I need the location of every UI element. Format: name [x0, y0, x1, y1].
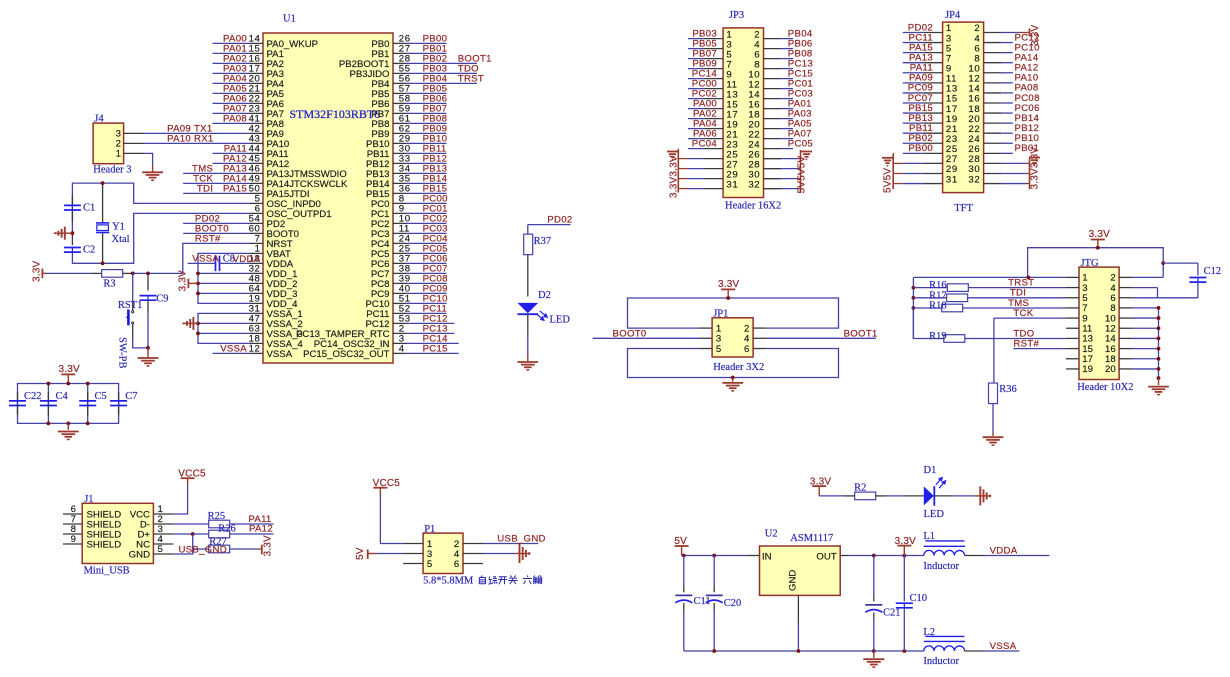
- svg-text:1: 1: [116, 149, 121, 160]
- svg-text:9: 9: [71, 534, 77, 545]
- U1 left pin 16 PA2: [249, 54, 284, 70]
- U1 right pin 3 PC14_OSC32_IN: [314, 334, 406, 350]
- wire: [688, 128, 704, 130]
- wire R26 to PA12: [230, 533, 274, 535]
- wire: [406, 92, 447, 94]
- crystal Y1: [96, 183, 130, 263]
- node PA00: [223, 34, 247, 45]
- wire: [406, 62, 477, 64]
- node PD02: [195, 214, 220, 225]
- wire: [913, 307, 941, 309]
- svg-text:Xtal: Xtal: [112, 234, 130, 245]
- connector J4 Header 3: [93, 114, 143, 176]
- resistor R18: [929, 301, 963, 312]
- power 5V U2: [674, 536, 688, 556]
- wire: [903, 72, 924, 74]
- U1 right pin 36 PB15: [366, 184, 411, 200]
- wire: [406, 252, 447, 254]
- wire: [406, 122, 447, 124]
- svg-text:5V5V5V: 5V5V5V: [797, 155, 808, 193]
- U1 right pin 33 PB12: [366, 154, 411, 170]
- wire D1 to ground: [934, 495, 980, 497]
- node PA05: [223, 84, 247, 95]
- power 3.3V JTAG: [1089, 229, 1111, 248]
- node PB11: [909, 123, 933, 134]
- wire P1 pin2 USB_GND: [483, 543, 538, 545]
- U1 left pin 20 PA4: [249, 74, 285, 90]
- wire: [213, 112, 251, 114]
- node PC09: [908, 83, 933, 94]
- junction: [196, 282, 200, 286]
- node PA08: [1015, 83, 1039, 94]
- svg-text:3.3V3.3V: 3.3V3.3V: [669, 155, 680, 198]
- node PB12: [423, 154, 448, 165]
- wire BOOT0: [593, 337, 699, 339]
- capacitor C4: [40, 391, 69, 415]
- wire: [781, 128, 793, 130]
- svg-text:Header 3X2: Header 3X2: [713, 362, 764, 373]
- switch RST1 SW-PB: [117, 273, 149, 368]
- connector JTG Header 10X2: [1066, 258, 1133, 393]
- svg-text:C22: C22: [24, 391, 42, 402]
- wire: [781, 68, 793, 70]
- op-amp U1 microcontroller STM32F103RBT6 body: [263, 14, 393, 364]
- node PC09: [423, 284, 448, 295]
- capacitor C8 with VDDA wire: [188, 254, 261, 272]
- wire: [1001, 52, 1013, 54]
- svg-text:GND: GND: [788, 570, 799, 591]
- wire: [406, 182, 447, 184]
- node PB02: [908, 133, 933, 144]
- svg-text:PC04: PC04: [692, 138, 718, 149]
- wire: [903, 112, 924, 114]
- power 3.3V VDD rail: [178, 270, 199, 292]
- wire: [781, 108, 793, 110]
- U1 left pin 23 PA7: [249, 104, 284, 120]
- resistor R16: [929, 280, 968, 291]
- U1 right pin 11 PC3: [371, 224, 410, 240]
- node TCK PA14: [193, 174, 247, 185]
- node PB12: [1015, 123, 1040, 134]
- U1 left pin 54 PD2: [249, 214, 286, 230]
- svg-text:OUT: OUT: [816, 552, 836, 563]
- wire: [781, 98, 793, 100]
- node PA12: [249, 524, 273, 535]
- svg-text:TFT: TFT: [954, 203, 973, 214]
- wire: [732, 378, 734, 382]
- label 5.8*5.8MM switch caption: [423, 576, 542, 587]
- svg-text:31: 31: [946, 174, 958, 185]
- U1 left pin 12 VSSA: [249, 344, 293, 360]
- svg-text:C21: C21: [883, 607, 901, 618]
- wire: [781, 118, 793, 120]
- wire: [1158, 378, 1160, 385]
- svg-text:IN: IN: [762, 552, 772, 563]
- svg-text:VDDA: VDDA: [990, 545, 1018, 556]
- svg-text:C1: C1: [83, 203, 95, 214]
- wire: [213, 92, 251, 94]
- wire: [406, 292, 447, 294]
- power 3.3V labels JP3 left: [669, 155, 680, 198]
- wire: [406, 162, 447, 164]
- junction: [902, 649, 906, 653]
- node PA14: [1015, 53, 1039, 64]
- wire: [781, 58, 793, 60]
- node PA07: [223, 104, 247, 115]
- svg-text:Inductor: Inductor: [923, 561, 959, 572]
- U1 left pin 15 PA1: [249, 44, 284, 60]
- wire TCK: [994, 317, 1066, 319]
- junction: [1027, 276, 1031, 280]
- node PB11: [423, 144, 447, 155]
- svg-text:5V5V: 5V5V: [883, 168, 894, 193]
- U1 right pin 24 PC4: [371, 234, 411, 250]
- wire JTAG left rail: [912, 277, 914, 338]
- svg-text:TDI: TDI: [197, 184, 213, 195]
- wire: [688, 88, 704, 90]
- node PA05: [788, 118, 812, 129]
- svg-text:SW-PB: SW-PB: [117, 337, 128, 369]
- junction: [191, 532, 195, 536]
- power VCC5: [178, 469, 206, 485]
- wire crystal top rail: [72, 183, 250, 233]
- U1 left pin 13 VDDA: [249, 254, 294, 270]
- U1 right pin 10 PC2: [371, 214, 411, 230]
- node USB_GND: [179, 544, 227, 555]
- node PA03: [223, 64, 247, 75]
- wire: [913, 287, 947, 289]
- node PA01: [788, 98, 812, 109]
- wire: [903, 142, 924, 144]
- power 5V labels JP3 right: [797, 155, 808, 193]
- connector JP1 Header 3X2: [699, 309, 766, 374]
- svg-text:ASM1117: ASM1117: [790, 533, 833, 544]
- node PA12: [223, 154, 247, 165]
- wire: [688, 118, 704, 120]
- svg-text:USB_GND: USB_GND: [497, 534, 545, 545]
- ground sideways D1: [980, 486, 991, 505]
- junction: [1157, 316, 1161, 320]
- U1 right pin 53 PC12: [366, 314, 411, 330]
- U1 right pin 56 PB4: [371, 74, 410, 90]
- capacitor C22: [9, 391, 42, 415]
- ground R36: [983, 437, 1004, 445]
- wire: [406, 302, 447, 304]
- junction: [1157, 376, 1161, 380]
- wire: [903, 52, 924, 54]
- resistor R36: [989, 383, 1017, 404]
- svg-text:VSSA: VSSA: [990, 641, 1017, 652]
- wire: [406, 242, 447, 244]
- resistor R19: [929, 331, 965, 342]
- wire: [213, 102, 251, 104]
- wire: [688, 58, 704, 60]
- node PA07: [788, 128, 812, 139]
- connector P1 self-lock switch: [403, 524, 483, 574]
- wire JTAG row1 to left rail: [913, 276, 1066, 278]
- U1 left pin 48 VDD_2: [249, 274, 298, 290]
- wire: [688, 148, 704, 150]
- junction: [1161, 261, 1165, 265]
- node BOOT1: [844, 328, 878, 339]
- wire: [213, 152, 251, 154]
- node PC07: [908, 93, 933, 104]
- wire: [903, 82, 924, 84]
- wire: [406, 332, 454, 334]
- power 3.3V JP1: [718, 279, 740, 298]
- junction: [912, 306, 916, 310]
- wire: [406, 312, 447, 314]
- wire J4 pin2 to U1 PA10: [143, 142, 250, 144]
- node TDO: [1013, 328, 1034, 339]
- junction: [872, 554, 876, 558]
- svg-text:3.3V: 3.3V: [263, 535, 274, 557]
- U1 left pin 21 PA5: [249, 84, 284, 100]
- wire: [963, 307, 1066, 309]
- U1 right pin 55 PB3JIDO: [350, 64, 411, 80]
- ground: [142, 172, 163, 180]
- node TRST: [1008, 277, 1034, 288]
- wire: [406, 352, 459, 354]
- wire JP1 bottom loop: [628, 349, 839, 378]
- svg-text:3.3V3.3V: 3.3V3.3V: [1029, 147, 1040, 190]
- wire U2 GND pin: [797, 595, 799, 651]
- U1 right pin 59 PB7: [371, 104, 410, 120]
- junction: [1157, 367, 1161, 371]
- U1 right pin 28 PB2BOOT1: [339, 54, 411, 70]
- resistor R17: [929, 290, 968, 301]
- svg-text:RST#: RST#: [1013, 339, 1039, 350]
- U1 right pin 37 PC6: [371, 254, 411, 270]
- junction: [47, 422, 51, 426]
- wire: [688, 68, 704, 70]
- node PB06: [423, 94, 448, 105]
- wire: [213, 122, 251, 124]
- svg-text:32: 32: [748, 179, 760, 190]
- wire: [406, 202, 447, 204]
- wire: [213, 72, 251, 74]
- wire JTAG top rail: [1028, 248, 1164, 278]
- wire VCC5 to P1 pin1: [380, 495, 403, 544]
- power 3.3V JP4 pin2: [1030, 24, 1041, 46]
- wire pin4 pin6 join: [1132, 288, 1157, 298]
- junction: [66, 422, 70, 426]
- svg-text:5V: 5V: [355, 547, 366, 560]
- svg-text:PB00: PB00: [908, 143, 933, 154]
- wire: [781, 78, 793, 80]
- U1 left pin 22 PA6: [249, 94, 284, 110]
- U1 left pin 49 PA14JTCKSWCLK: [249, 174, 348, 190]
- U1 right pin 2 PC13_TAMPER_RTC: [296, 324, 406, 340]
- U1 right pin 51 PC10: [366, 294, 411, 310]
- wire: [1001, 82, 1013, 84]
- svg-text:RST#: RST#: [195, 234, 221, 245]
- power rail JP3 right: [764, 150, 801, 193]
- wire: [406, 72, 477, 74]
- junction: [1157, 347, 1161, 351]
- svg-text:3.3V: 3.3V: [1089, 229, 1111, 240]
- U1 left pin 50 PA15JTDI: [249, 184, 310, 200]
- svg-text:VSSA: VSSA: [220, 344, 247, 355]
- wire: [903, 42, 924, 44]
- wire OSC_OUT loop: [72, 213, 250, 263]
- junction: [86, 422, 90, 426]
- capacitor C5: [79, 391, 107, 415]
- svg-text:VDDA: VDDA: [233, 254, 261, 265]
- svg-text:D2: D2: [538, 290, 551, 301]
- wire VCC to VCC5: [173, 484, 187, 514]
- U1 right pin 25 PC5: [371, 244, 411, 260]
- U1 right pin 39 PC8: [371, 274, 411, 290]
- svg-text:U1: U1: [283, 14, 296, 25]
- wire: [406, 102, 447, 104]
- capacitor C2: [64, 233, 95, 255]
- wire J4 pin1 to ground: [143, 153, 153, 171]
- node PC00: [692, 78, 717, 89]
- node PB04: [788, 28, 813, 39]
- ground JP3 left pin25: [667, 152, 678, 160]
- ground JP1: [722, 383, 743, 391]
- node PC04: [423, 234, 449, 245]
- ground: [517, 362, 538, 370]
- ground U2: [863, 651, 884, 667]
- node PC12: [1015, 32, 1040, 43]
- node BOOT0: [613, 328, 647, 339]
- wire R19 branch: [913, 308, 943, 339]
- wire: [406, 132, 447, 134]
- LED D2: [518, 290, 571, 326]
- node PC08: [1015, 93, 1040, 104]
- node PA15: [909, 42, 933, 53]
- node BOOT0: [195, 224, 229, 235]
- power 3.3V pullup: [259, 535, 274, 557]
- svg-text:20: 20: [1105, 364, 1116, 375]
- junction: [712, 554, 716, 558]
- wire: [1001, 132, 1013, 134]
- node PC11: [909, 32, 934, 43]
- node PC08: [423, 274, 448, 285]
- U1 left pin 43 PA10: [249, 134, 290, 150]
- node PA12: [1015, 63, 1039, 74]
- junction: [731, 376, 735, 380]
- wire: [406, 342, 459, 344]
- svg-text:SHIELD: SHIELD: [87, 539, 122, 550]
- wire: [903, 122, 924, 124]
- svg-text:C9: C9: [156, 294, 168, 305]
- wire: [213, 52, 251, 54]
- wire cap bank rails: [18, 384, 119, 430]
- regulator U2 ASM1117: [760, 529, 841, 596]
- node PB05: [423, 84, 448, 95]
- wire: [406, 222, 447, 224]
- power 5V at P1: [355, 547, 377, 560]
- U1 right pin 52 PC11: [366, 304, 410, 320]
- svg-text:JP1: JP1: [713, 309, 728, 320]
- node PB04: [423, 74, 484, 85]
- node PB01: [423, 44, 448, 55]
- node PA11: [224, 144, 247, 155]
- wire: [67, 423, 69, 429]
- connector JP4 TFT: [924, 10, 1001, 214]
- wire R36 to ground: [992, 404, 994, 437]
- junction: [47, 382, 51, 386]
- U1 left pin 31 VSSA_1: [249, 304, 303, 320]
- junction: [1157, 337, 1161, 341]
- resistor R37: [524, 225, 551, 297]
- wire: [781, 148, 793, 150]
- node PC01: [423, 204, 448, 215]
- node VSSA: [990, 641, 1017, 652]
- wire bottom rail: [684, 650, 924, 652]
- wire VSSA rail: [198, 313, 250, 343]
- node PB06: [788, 38, 813, 49]
- junction: [101, 261, 105, 265]
- node PC03: [788, 88, 813, 99]
- junction: [131, 272, 135, 276]
- wire: [183, 182, 250, 184]
- U1 left pin 1 VBAT: [250, 244, 291, 260]
- svg-text:C10: C10: [910, 593, 928, 604]
- U1 right pin 34 PB13: [366, 164, 411, 180]
- svg-text:R18: R18: [929, 301, 947, 312]
- node PA02: [223, 54, 247, 65]
- node PB14: [1015, 113, 1040, 124]
- svg-text:PA10: PA10: [167, 133, 191, 144]
- wire TCK to R36: [993, 318, 995, 383]
- svg-text:STM32F103RBT6: STM32F103RBT6: [290, 107, 381, 121]
- junction: [146, 346, 150, 350]
- wire: [903, 92, 924, 94]
- svg-text:JTG: JTG: [1081, 258, 1100, 269]
- U1 left pin 42 PA9: [249, 124, 284, 140]
- ground JP4 right pin28: [1029, 158, 1040, 166]
- wire: [406, 42, 447, 44]
- svg-text:VSSA: VSSA: [267, 349, 293, 360]
- inductor L1: [923, 531, 983, 572]
- wire GND pin to D+ node: [173, 534, 192, 554]
- power 3.3V at U2 OUT: [895, 536, 917, 556]
- wire JTAG ground rail: [1132, 308, 1158, 378]
- node PC02: [692, 88, 717, 99]
- wire reset node: [133, 272, 183, 274]
- svg-text:R37: R37: [534, 236, 552, 247]
- node RST#: [195, 234, 221, 245]
- node PA06: [693, 128, 717, 139]
- wire: [183, 192, 250, 194]
- node PA10: [1015, 73, 1039, 84]
- wire 3.3V to R2: [819, 495, 855, 497]
- U1 left pin 46 PA13JTMSSWDIO: [249, 164, 347, 180]
- node PB01: [1015, 143, 1040, 154]
- wire D+ to R26: [173, 533, 208, 535]
- wire: [903, 132, 924, 134]
- node PC15: [423, 344, 448, 355]
- power VSS arrow for VSSA rail: [182, 317, 198, 330]
- U1 right pin 38 PC7: [371, 264, 411, 280]
- wire: [903, 32, 924, 34]
- svg-text:3.3V: 3.3V: [178, 270, 189, 292]
- U1 right pin 61 PB8: [371, 114, 410, 130]
- node PC15: [788, 68, 813, 79]
- U1 right pin 62 PB9: [371, 124, 410, 140]
- U1 left pin 14 PA0_WKUP: [249, 34, 318, 50]
- svg-text:TCK: TCK: [1013, 308, 1033, 319]
- svg-text:C4: C4: [56, 391, 69, 402]
- U1 right pin 4 PC15_OSC32_OUT: [303, 344, 406, 360]
- svg-text:PA08: PA08: [223, 114, 247, 125]
- svg-text:C20: C20: [724, 598, 742, 609]
- wire: [903, 102, 924, 104]
